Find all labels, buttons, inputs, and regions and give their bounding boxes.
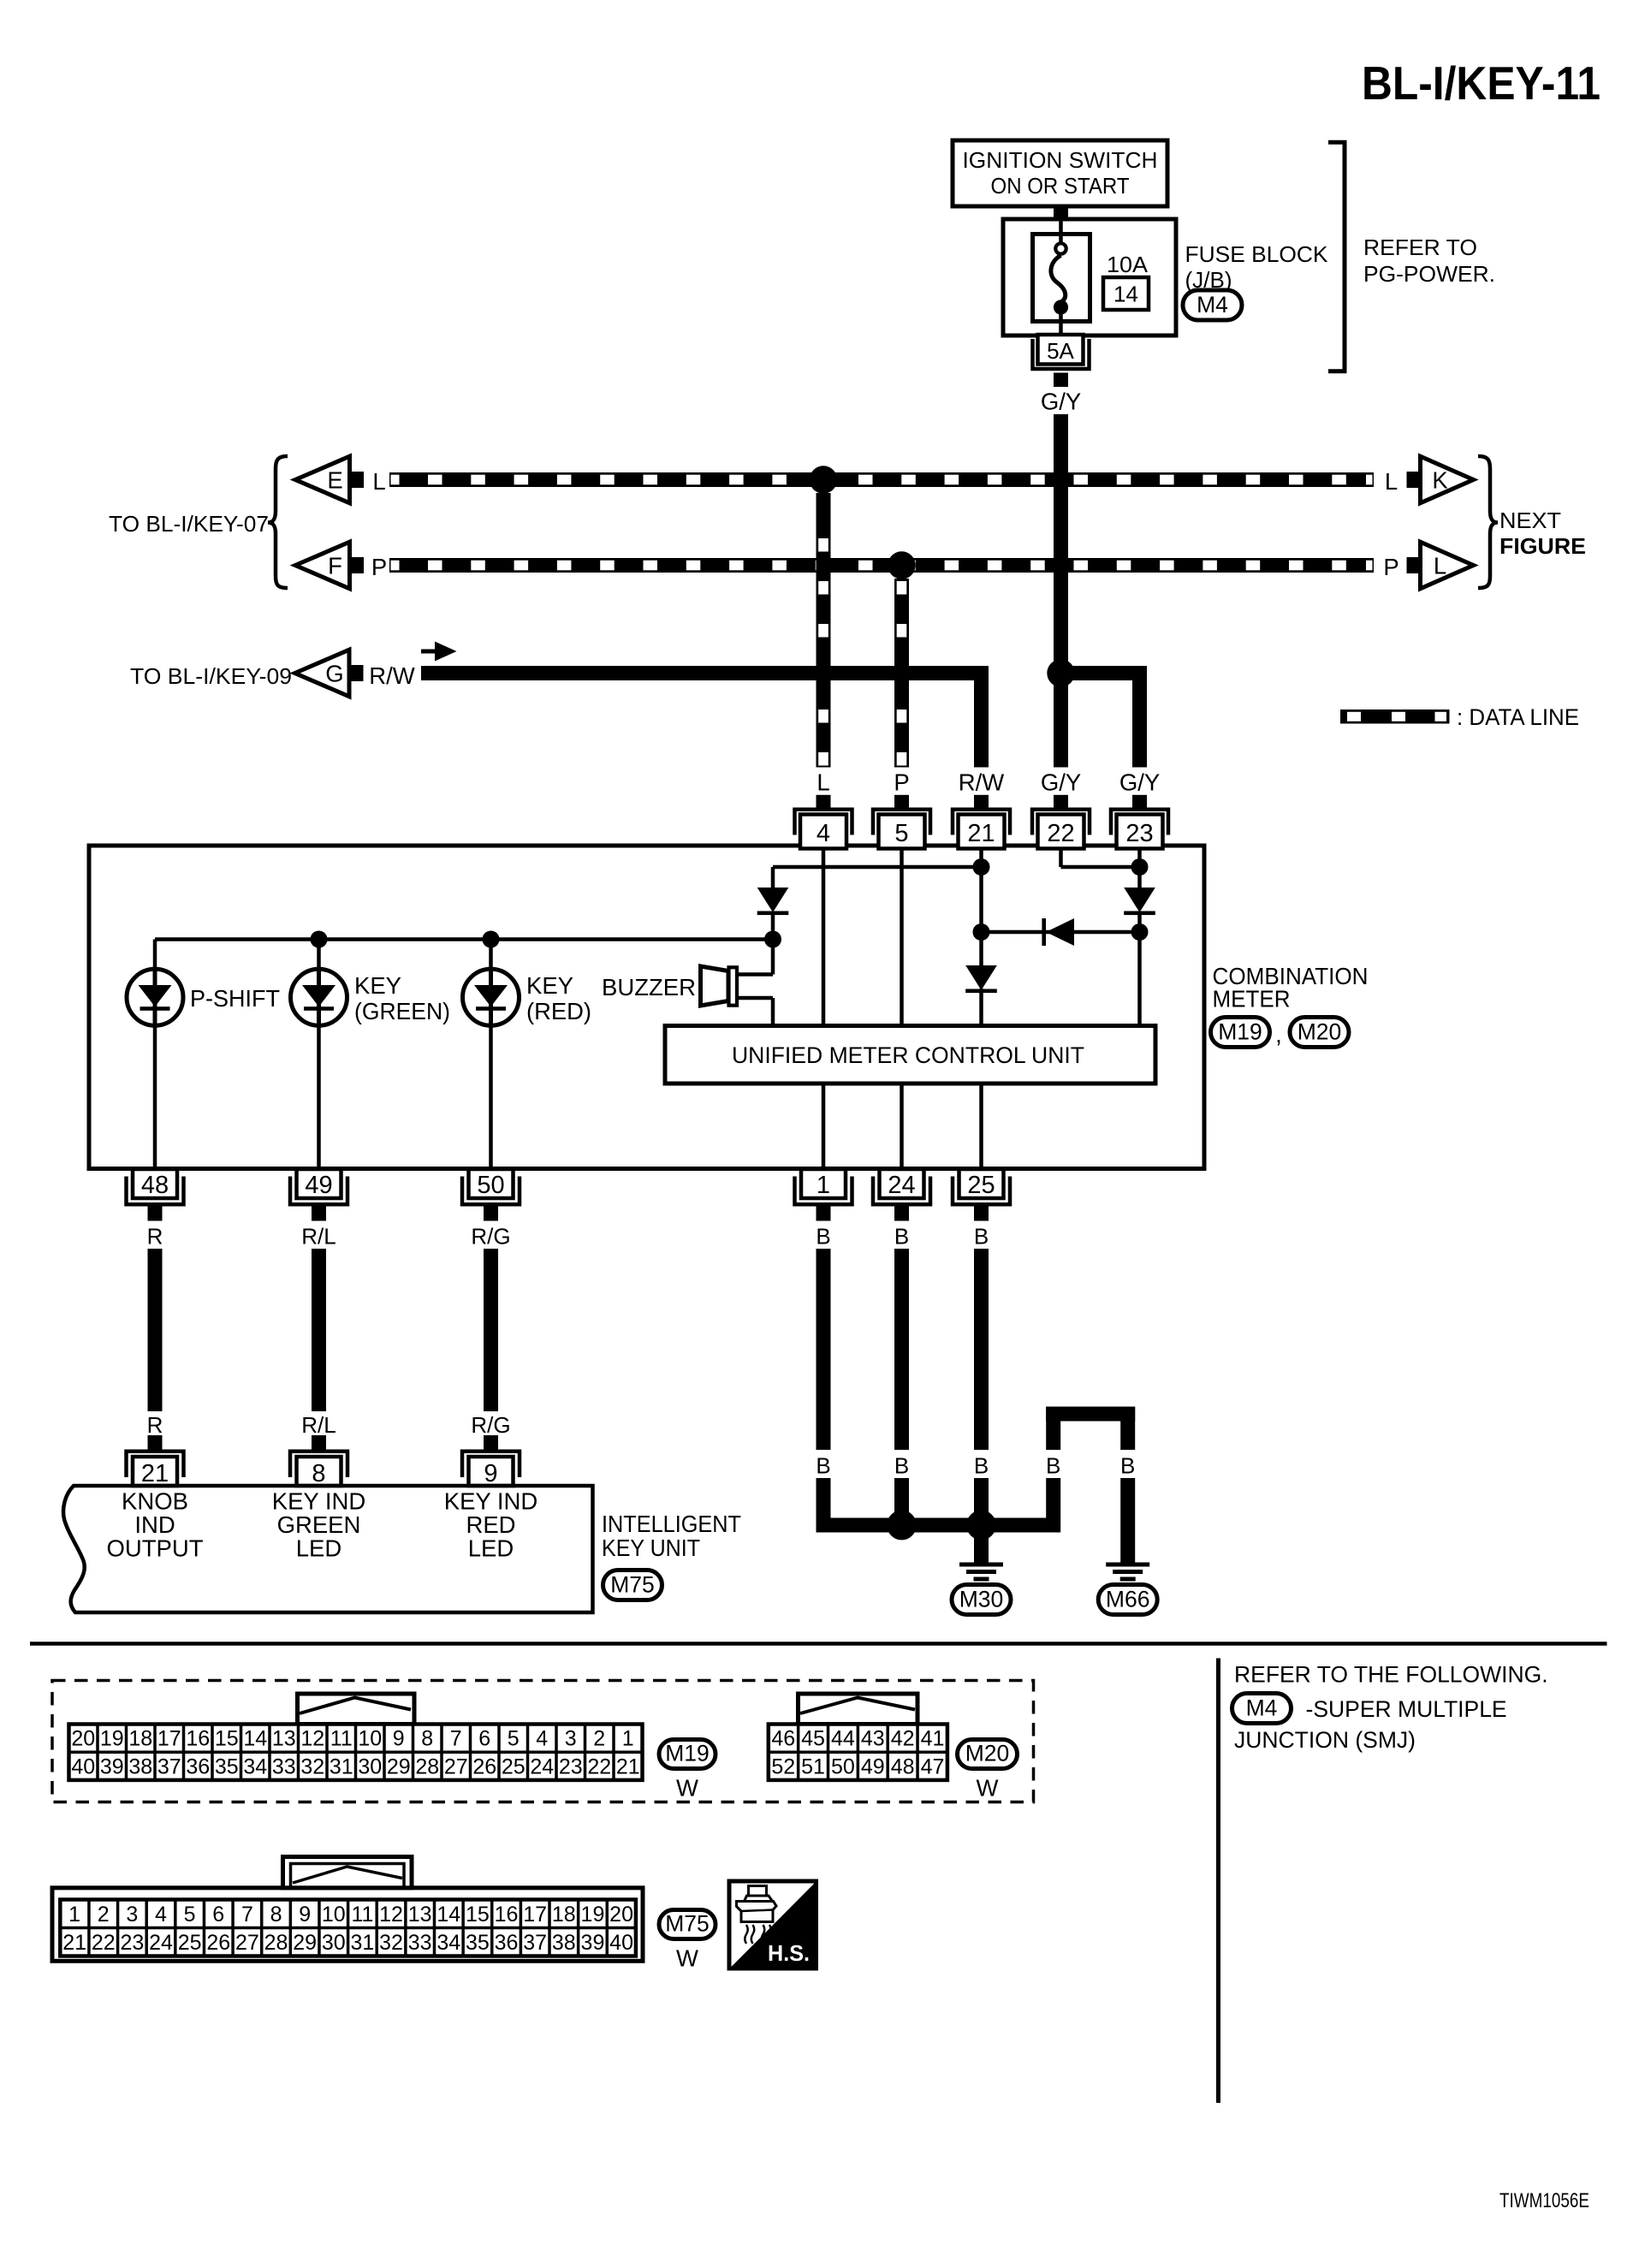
svg-text:21: 21 [616,1754,640,1778]
direction arrow on R/W [421,642,457,662]
svg-text:M30: M30 [959,1587,1004,1612]
svg-text:(GREEN): (GREEN) [354,998,450,1024]
svg-text:26: 26 [472,1754,496,1778]
ground bus horizontal [817,1518,1061,1533]
svg-text:14: 14 [243,1727,267,1751]
svg-text:13: 13 [272,1727,296,1751]
svg-text:G/Y: G/Y [1041,769,1081,796]
wire x=372.5 to intelligent key unit [312,1249,326,1411]
wire pin 21 internal [979,849,983,1026]
svg-text:G/Y: G/Y [1041,389,1081,415]
svg-text:PG-POWER.: PG-POWER. [1363,261,1495,287]
connector id M19 M20 [1211,1018,1350,1048]
svg-text:P: P [371,554,387,580]
svg-text:UNIFIED METER CONTROL UNIT: UNIFIED METER CONTROL UNIT [732,1042,1084,1068]
svg-text:LED: LED [296,1535,342,1562]
wire label B (lower) x=962 [816,1453,830,1479]
pin 5 (combination meter top) [873,795,930,849]
svg-text:L: L [372,468,385,495]
pin 21 (combination meter top) [953,795,1010,849]
svg-text:KEY IND: KEY IND [272,1488,366,1515]
unified meter control unit box [665,1026,1155,1084]
svg-text:51: 51 [801,1754,825,1778]
svg-text:L: L [817,769,829,796]
LED KEY (RED) [463,967,520,1028]
svg-text:30: 30 [358,1754,382,1778]
wire B x=1053.5 down [894,1249,909,1450]
svg-text:38: 38 [552,1931,576,1955]
wire label P (right) [1383,554,1398,580]
pin 9 (intelligent key unit) [462,1435,520,1487]
svg-text:40: 40 [609,1931,633,1955]
junction bus at pin 25 [966,1511,996,1541]
wire label L (left) [372,468,385,495]
vertical data wire to pin 4 [817,493,831,768]
svg-text:M75: M75 [610,1572,655,1598]
connector arrow L [1407,542,1474,589]
svg-text:M19: M19 [1218,1019,1262,1045]
svg-text:R/L: R/L [301,1412,336,1438]
fuse block (J/B) box [1003,219,1176,335]
wire label L above pin [817,769,829,796]
note REFER TO PG-POWER [1363,235,1495,287]
data line P (horizontal) [389,558,1374,573]
svg-text:5: 5 [184,1903,196,1927]
svg-text:4: 4 [155,1903,167,1927]
svg-text:23: 23 [559,1754,583,1778]
label FUSE BLOCK (J/B) [1185,241,1329,293]
svg-text:32: 32 [300,1754,324,1778]
pin 25 (combination meter bottom) [953,1169,1010,1221]
svg-text:GREEN: GREEN [277,1511,361,1538]
svg-text:6: 6 [478,1727,490,1751]
svg-text:9: 9 [393,1727,405,1751]
svg-text:TO BL-I/KEY-07: TO BL-I/KEY-07 [109,511,269,537]
label COMBINATION METER [1213,963,1369,1012]
bracket REFER TO PG-POWER [1328,142,1345,371]
data line L (horizontal) [389,472,1374,487]
svg-text:H.S.: H.S. [768,1940,810,1966]
svg-text:(RED): (RED) [526,998,591,1024]
wire label B (bridge left) [1046,1453,1060,1479]
fuse 14 10A symbol [1033,219,1090,335]
wire bridge left leg lower [1046,1478,1060,1518]
svg-text:B: B [1120,1453,1135,1479]
wire G/Y branch to pin 23 [1061,666,1148,768]
svg-text:,: , [1275,1021,1282,1048]
svg-text:25: 25 [967,1172,995,1199]
wire B pin24 to bus [894,1478,909,1518]
label KNOB IND OUTPUT [106,1488,203,1562]
diode D1 (anode to pin-21 branch) [757,888,789,915]
svg-text:B: B [974,1453,989,1479]
svg-text:15: 15 [215,1727,239,1751]
svg-text:13: 13 [408,1903,432,1927]
wire pin 22 internal [1061,849,1140,868]
wire label L (right) [1385,468,1398,495]
combination meter box [89,846,1204,1169]
diode D2 below pin 21 [965,965,997,993]
wire label R (upper) [147,1224,163,1250]
wire ignition switch to fuse block [1054,206,1068,220]
svg-text:M4: M4 [1246,1695,1278,1721]
label NEXT FIGURE [1499,508,1586,559]
connector arrow K [1407,456,1474,503]
pin 48 (combination meter bottom) [127,1169,184,1221]
title BL-I/KEY-11 [1362,56,1600,110]
wire R/W horizontal and down to pin 21 [421,666,989,768]
svg-text:TO BL-I/KEY-09: TO BL-I/KEY-09 [130,663,292,689]
svg-text:16: 16 [495,1903,519,1927]
svg-text:35: 35 [215,1754,239,1778]
pin 8 (intelligent key unit) [290,1435,347,1487]
intelligent key unit box [63,1486,592,1612]
svg-text:NEXT: NEXT [1499,508,1561,533]
svg-text:47: 47 [921,1754,945,1778]
svg-text:KEY UNIT: KEY UNIT [602,1535,700,1561]
svg-text:36: 36 [186,1754,210,1778]
svg-text:11: 11 [351,1903,373,1927]
wire label B (upper) [894,1224,909,1250]
svg-text:30: 30 [322,1931,346,1955]
svg-text:22: 22 [1047,820,1074,847]
svg-text:3: 3 [126,1903,138,1927]
svg-text:12: 12 [379,1903,403,1927]
wire label G/Y above pin [1041,769,1081,796]
svg-text:R: R [147,1224,163,1250]
svg-text:34: 34 [436,1931,460,1955]
pin 1 (combination meter bottom) [795,1169,852,1221]
svg-text:FIGURE: FIGURE [1499,533,1586,559]
wire pin 5 to UMCU [900,849,904,1026]
junction pin23 upper [1131,858,1149,876]
dashed connector group box [52,1681,1034,1802]
junction LED bus right end [764,931,781,948]
svg-text:KEY IND: KEY IND [444,1488,538,1515]
svg-text:R/L: R/L [301,1224,336,1250]
wire label R/L (lower) [301,1412,336,1438]
connector 5A (fuse output) [1033,335,1090,369]
wire G/Y vertical from fuse to pin 22 [1054,414,1068,768]
wire label G/Y (fuse) [1041,389,1081,415]
ground M30 [952,1563,1011,1615]
svg-text:5: 5 [508,1727,520,1751]
svg-text:52: 52 [771,1754,795,1778]
svg-text:W: W [676,1775,698,1802]
svg-text:M20: M20 [1298,1019,1342,1045]
svg-text:W: W [676,1945,698,1972]
svg-text:B: B [894,1224,909,1250]
label KEY (RED) [526,972,591,1024]
junction pin23 lower [1131,923,1149,941]
LED P-SHIFT [127,967,183,1028]
connector id M75 [603,1570,662,1600]
svg-text:M20: M20 [965,1741,1010,1766]
svg-text:36: 36 [495,1931,519,1955]
wire label R/W above pin [959,769,1005,796]
wire pin 23 internal [1137,849,1142,1026]
svg-text:24: 24 [530,1754,554,1778]
svg-text:8: 8 [421,1727,433,1751]
svg-text:R/W: R/W [369,662,415,689]
wire LED KEY RED column [489,940,493,1167]
svg-text:25: 25 [178,1931,202,1955]
svg-text:2: 2 [98,1903,110,1927]
svg-text:1: 1 [817,1172,830,1199]
wire label R/W (left) [369,662,415,689]
svg-text:IND: IND [134,1511,175,1538]
svg-text:KEY: KEY [354,972,401,999]
svg-text:39: 39 [100,1754,124,1778]
svg-text:17: 17 [157,1727,181,1751]
wire label R/G (lower) [471,1412,510,1438]
wire label R (lower) [147,1412,163,1438]
connector arrow E [295,456,364,503]
wire label R/G (upper) [471,1224,510,1250]
svg-text:22: 22 [587,1754,611,1778]
svg-text:24: 24 [149,1931,173,1955]
label KEY IND GREEN LED [272,1488,366,1562]
svg-text:F: F [328,553,342,579]
wire bus to ground M30 [974,1533,989,1563]
wire label G/Y above pin [1119,769,1160,796]
svg-text:B: B [816,1224,830,1250]
svg-text:27: 27 [235,1931,259,1955]
svg-text:E: E [327,467,342,494]
wire label B (lower) x=1053.5 [894,1453,909,1479]
LED KEY (GREEN) [291,967,347,1028]
svg-text:10: 10 [322,1903,346,1927]
wire LED P-SHIFT column [153,940,157,1167]
svg-text:50: 50 [477,1172,504,1199]
svg-text:21: 21 [967,820,995,847]
bridge wire to M66 (inverted U) [1046,1407,1135,1451]
svg-text:-SUPER MULTIPLE: -SUPER MULTIPLE [1306,1696,1507,1722]
svg-text:P: P [894,769,909,796]
wire label B (lower) x=1146.5 [974,1453,989,1479]
svg-text:11: 11 [330,1727,353,1751]
svg-text:B: B [816,1453,830,1479]
label TIWM1056E [1499,2189,1589,2212]
svg-text:8: 8 [312,1460,325,1487]
wire x=573.5 to intelligent key unit [484,1249,498,1411]
svg-text:G/Y: G/Y [1119,769,1160,796]
svg-text:24: 24 [888,1172,915,1199]
brace left BL-I/KEY-07 [268,456,288,588]
svg-text:46: 46 [771,1727,795,1751]
wire UMCU to pin 1 [822,1084,826,1167]
connector diagram M20 [769,1694,1018,1802]
svg-text:16: 16 [186,1727,210,1751]
junction pin21 upper [973,858,990,876]
wire B pin1 down to bus [817,1478,831,1533]
svg-text:35: 35 [466,1931,490,1955]
svg-text:BUZZER: BUZZER [602,974,696,1000]
svg-text:25: 25 [502,1754,526,1778]
svg-text:19: 19 [581,1903,605,1927]
ignition switch ON OR START block [953,140,1167,206]
svg-text:L: L [1385,468,1398,495]
wire label B (bridge right) [1120,1453,1135,1479]
wire B x=1146.5 down [974,1249,989,1450]
svg-text:12: 12 [300,1727,324,1751]
wire buzzer top terminal [739,940,773,975]
svg-text:20: 20 [71,1727,95,1751]
pin 24 (combination meter bottom) [873,1169,930,1221]
wire pin 4 to UMCU [822,849,826,1026]
svg-text:19: 19 [100,1727,124,1751]
wire label R/L (upper) [301,1224,336,1250]
svg-text:43: 43 [861,1727,885,1751]
svg-text:IGNITION SWITCH: IGNITION SWITCH [963,147,1158,173]
junction on data line P [888,551,915,579]
svg-text:5A: 5A [1047,338,1074,364]
legend DATA LINE [1340,704,1579,730]
wire UMCU to pin 25 [979,1084,983,1167]
diode D3 below pin 23 [1124,888,1155,915]
svg-text:REFER TO: REFER TO [1363,235,1477,260]
svg-text:OUTPUT: OUTPUT [106,1535,203,1562]
label TO BL-I/KEY-09 [130,663,292,689]
svg-text:15: 15 [466,1903,490,1927]
svg-text:L: L [1434,553,1446,579]
brace NEXT FIGURE [1478,456,1498,588]
svg-text:20: 20 [609,1903,633,1927]
svg-text:7: 7 [241,1903,253,1927]
wire label P (left) [371,554,387,580]
svg-text:14: 14 [436,1903,460,1927]
svg-text:38: 38 [128,1754,152,1778]
svg-text:INTELLIGENT: INTELLIGENT [602,1511,741,1537]
label KEY IND RED LED [444,1488,538,1562]
svg-text:45: 45 [801,1727,825,1751]
svg-text:RED: RED [466,1511,515,1538]
svg-text:KEY: KEY [526,972,573,999]
svg-text:21: 21 [141,1460,169,1487]
svg-text:3: 3 [565,1727,577,1751]
label KEY (GREEN) [354,972,450,1024]
svg-text:1: 1 [68,1903,80,1927]
connector arrow F [295,542,364,589]
connector diagram M19 [69,1694,716,1802]
svg-text:48: 48 [891,1754,915,1778]
svg-text:P: P [1383,554,1398,580]
wire label B (upper) [974,1224,989,1250]
svg-text:2: 2 [593,1727,605,1751]
svg-text:18: 18 [552,1903,576,1927]
svg-text:M66: M66 [1106,1587,1150,1612]
svg-text:40: 40 [71,1754,95,1778]
svg-text:K: K [1432,467,1448,494]
svg-text:14: 14 [1113,282,1138,307]
svg-text:8: 8 [270,1903,282,1927]
connector diagram M75 [52,1857,716,1972]
separator line [30,1642,1607,1646]
wire buzzer bottom terminal [739,998,773,1026]
svg-text:R/G: R/G [471,1224,510,1250]
junction on data line L [810,466,837,493]
vertical data wire to pin 5 [894,579,909,768]
pin 22 (combination meter top) [1032,795,1090,849]
pin 23 (combination meter top) [1111,795,1168,849]
svg-text:34: 34 [243,1754,267,1778]
svg-text:48: 48 [141,1172,169,1199]
wire UMCU to pin 24 [900,1084,904,1167]
svg-text:METER: METER [1213,986,1291,1012]
wire diode D1 to junction [771,913,775,940]
svg-text:FUSE BLOCK: FUSE BLOCK [1185,241,1329,267]
svg-text:REFER TO THE FOLLOWING.: REFER TO THE FOLLOWING. [1234,1662,1548,1688]
svg-text:33: 33 [408,1931,432,1955]
label P-SHIFT [190,985,280,1012]
svg-text:32: 32 [379,1931,403,1955]
buzzer [701,966,738,1006]
svg-text:R/W: R/W [959,769,1005,796]
wire B pin25 to bus [974,1478,989,1518]
svg-text:M4: M4 [1197,292,1228,318]
junction LED green tap [311,931,328,948]
pin 50 (combination meter bottom) [462,1169,520,1221]
wire label P above pin [894,769,909,796]
svg-text:42: 42 [891,1727,915,1751]
svg-text:JUNCTION (SMJ): JUNCTION (SMJ) [1234,1727,1416,1753]
wire cross branch with diode D4 [989,930,1140,935]
svg-text:10: 10 [358,1727,382,1751]
svg-text:KNOB: KNOB [122,1488,188,1515]
wire label B (upper) [816,1224,830,1250]
svg-text:B: B [894,1453,909,1479]
wire bridge right leg to ground M66 [1120,1478,1135,1563]
svg-text:22: 22 [92,1931,116,1955]
label INTELLIGENT KEY UNIT [602,1511,741,1561]
svg-text:6: 6 [212,1903,224,1927]
svg-text:9: 9 [484,1460,497,1487]
svg-text:4: 4 [536,1727,548,1751]
svg-text:: DATA LINE: : DATA LINE [1457,704,1579,730]
svg-text:26: 26 [206,1931,230,1955]
svg-text:17: 17 [523,1903,547,1927]
LED anode bus [155,937,773,941]
svg-text:37: 37 [523,1931,547,1955]
svg-text:10A: 10A [1107,252,1149,277]
svg-text:P-SHIFT: P-SHIFT [190,985,280,1012]
H.S. logo [729,1881,817,1968]
svg-text:49: 49 [861,1754,885,1778]
label 10A [1107,252,1149,277]
wire branch pin21 to diode D1 [773,867,982,888]
junction bus at pin 24 [887,1511,917,1541]
svg-text:4: 4 [817,820,830,847]
svg-text:23: 23 [1125,820,1153,847]
ground M66 [1098,1563,1157,1615]
svg-text:ON OR START: ON OR START [991,173,1130,199]
label BUZZER [602,974,696,1000]
svg-text:28: 28 [415,1754,439,1778]
svg-text:39: 39 [581,1931,605,1955]
svg-text:5: 5 [894,820,908,847]
svg-text:1: 1 [622,1727,634,1751]
svg-text:41: 41 [921,1727,945,1751]
svg-text:31: 31 [351,1931,375,1955]
svg-text:R/G: R/G [471,1412,510,1438]
svg-text:49: 49 [305,1172,332,1199]
svg-text:B: B [1046,1453,1060,1479]
svg-text:44: 44 [831,1727,855,1751]
pin 21 (intelligent key unit) [127,1435,184,1487]
svg-text:G: G [325,661,343,687]
svg-text:37: 37 [157,1754,181,1778]
svg-text:50: 50 [831,1754,855,1778]
